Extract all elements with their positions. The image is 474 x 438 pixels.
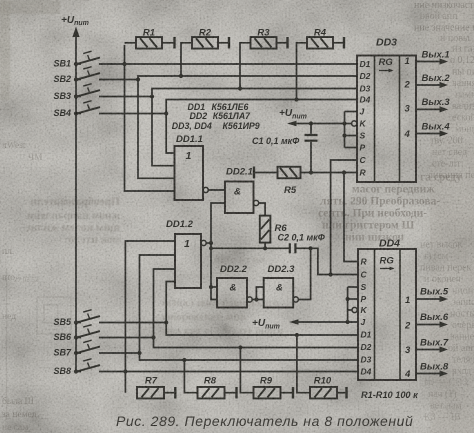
junction SB7 jog xyxy=(137,351,141,355)
resistor R2 xyxy=(192,37,218,49)
junction SB4 jog xyxy=(164,111,168,115)
DD2.3 output bubble xyxy=(293,297,298,302)
resistor R7 xyxy=(137,387,164,399)
mirrored ghost text left xyxy=(25,196,120,246)
wire R6 to C2 node xyxy=(264,243,266,249)
resistor R5 xyxy=(255,172,278,174)
wire D1 bottom row to DD4.D1 xyxy=(166,323,358,336)
wire R7 column to DD1.2 input1 xyxy=(125,241,175,393)
switch SB7 xyxy=(74,351,78,355)
tick R5 left xyxy=(253,167,255,179)
power arrow bottom xyxy=(289,319,299,325)
wire node to DD2.1 input2 xyxy=(211,203,225,243)
wire output Vyh3 xyxy=(416,108,441,110)
wire node down to DD2.2 inputs xyxy=(211,243,217,300)
ghost figure bleed lower-left xyxy=(7,268,72,420)
DD4 pin labels xyxy=(361,257,372,377)
faded book text right column xyxy=(414,0,474,423)
DD1.1 output bubble xyxy=(203,187,208,192)
DD2.1 output bubble xyxy=(254,200,259,205)
wire output Vyh2 xyxy=(416,84,441,86)
junction DD2.3 input tie xyxy=(254,297,258,301)
DD1.2 output bubble xyxy=(201,240,206,245)
junction C1 bottom xyxy=(309,170,313,174)
switch SB6 xyxy=(74,335,78,339)
wire D4 row jog to DD3.D4 xyxy=(166,100,357,114)
junction SB1/R1 xyxy=(122,62,126,66)
resistor R10 xyxy=(297,335,310,393)
capacitor C1 xyxy=(310,124,312,134)
switch SB2 xyxy=(74,77,78,81)
wire SB7 column to DD1.2 input2 xyxy=(140,255,176,353)
faded text lower left xyxy=(2,141,43,433)
wire output Vyh6 xyxy=(416,324,441,326)
IC DD4 box xyxy=(358,249,416,380)
wire DD2.3 input1 jog xyxy=(256,287,263,300)
junction R10/D1 xyxy=(295,333,299,337)
DD3 output numbers xyxy=(404,56,411,140)
DD4 K bubble xyxy=(352,307,357,312)
capacitor C2 xyxy=(289,243,291,253)
resistor R8 xyxy=(184,360,197,393)
wire C2 row xyxy=(211,247,289,249)
wire DD2.3 out up to C2 xyxy=(298,248,310,299)
wire R5 to DD3.R xyxy=(301,172,358,174)
wire SB2 column to DD1.1 input3 xyxy=(138,80,175,179)
wire D2 bottom row to DD4.D2 xyxy=(154,338,359,348)
wire output Vyh4 xyxy=(416,133,441,135)
wire SB4 row xyxy=(99,113,166,115)
wire +Upit to DD4.J xyxy=(298,321,358,323)
junction R line to DD4 xyxy=(342,170,346,174)
junction R6/C2 xyxy=(263,246,267,250)
wire +Upit to DD3.K xyxy=(296,123,352,125)
DD4 RG arrow xyxy=(380,268,391,270)
resistor R4 xyxy=(307,37,333,49)
switch SB5 xyxy=(74,320,78,324)
wire SB4 column to DD1.1 input1 xyxy=(166,114,174,154)
wire DD2.1 out to R6 xyxy=(259,203,265,216)
wire SB3 column to DD1.1 input2 xyxy=(152,97,175,166)
power arrow +Upit xyxy=(72,27,79,38)
wire DD1.2 out node xyxy=(206,242,211,244)
switch SB8 xyxy=(74,369,78,373)
wire R1 column to DD1.1 input4 xyxy=(125,45,175,191)
faded bleed lines under gates xyxy=(162,254,283,337)
junction R2/D2 xyxy=(179,74,183,78)
wire SB3 row xyxy=(99,96,152,98)
wire SB7 row xyxy=(99,352,140,354)
power arrow mid xyxy=(287,121,297,127)
wire DD1.1 out to DD2.1 input1 xyxy=(208,189,225,191)
wire SB5 row xyxy=(99,322,166,324)
wire SB2 row xyxy=(99,79,138,81)
junction C2/DD2.3 out xyxy=(309,246,313,250)
gate DD2.3 (NAND) xyxy=(264,278,294,308)
junction bracket K xyxy=(342,121,346,125)
wire D3 bottom row to DD4.D3 xyxy=(140,353,359,360)
junction bracket J bottom xyxy=(346,320,350,324)
wire D1 row SB1 to DD3.D1 xyxy=(99,63,357,65)
parts list DD1 DD2 DD3 DD4 types xyxy=(172,102,260,131)
switch SB3 xyxy=(74,94,78,98)
DD4 SPK bracket xyxy=(347,287,349,322)
gate DD2.1 (NAND) xyxy=(225,182,254,214)
junction SB2 jog xyxy=(136,77,140,81)
wire SB6 column to DD1.2 input3 xyxy=(154,269,176,338)
wire DD3.C down xyxy=(331,160,357,275)
DD3 K bubble xyxy=(352,121,357,126)
wire output Vyh8 xyxy=(416,373,441,375)
junction R3/D3 xyxy=(238,86,242,90)
wire D2 row jog to DD3.D2 xyxy=(138,76,357,80)
DD3 RG arrow xyxy=(379,70,390,72)
junction SB3 jog xyxy=(150,94,154,98)
resistor R6 xyxy=(260,216,271,243)
junction C line xyxy=(329,272,333,276)
wire D3 row jog to DD3.D3 xyxy=(152,89,357,97)
wire output Vyh1 xyxy=(416,61,441,63)
switch SB4 xyxy=(74,111,78,115)
junction R7/D4 xyxy=(123,369,127,373)
wire DD2.2 out to DD2.3 xyxy=(252,299,264,301)
resistor R9 xyxy=(240,348,253,393)
switch SB1 xyxy=(74,62,78,66)
junction C2 left tee xyxy=(209,246,213,250)
junction R8/D3 xyxy=(182,358,186,362)
gate DD2.2 (NAND) xyxy=(217,278,247,308)
junction R4/D4 xyxy=(294,97,298,101)
faded book text middle band xyxy=(318,172,462,244)
DD3 JSP bracket xyxy=(344,112,346,148)
junction C1 top xyxy=(309,121,313,125)
gate DD1.1 (4-input NOR) xyxy=(175,146,204,200)
DD3 pin labels xyxy=(360,59,371,178)
junction R9/D2 xyxy=(238,345,242,349)
gate DD1.2 (4-input NOR) xyxy=(175,234,201,288)
wire C2 node to DD4.C xyxy=(311,248,358,274)
junction SB5 jog xyxy=(164,320,168,324)
power rail +Upit xyxy=(75,31,77,372)
junction bracket P bottom xyxy=(346,297,350,301)
junction DD2.2 input1 xyxy=(209,285,213,289)
wire SB6 row xyxy=(99,337,154,339)
wire output Vyh7 xyxy=(416,349,441,351)
wire SB5 column to DD1.2 input4 xyxy=(166,282,175,323)
resistor R1 xyxy=(136,37,162,49)
IC DD3 box xyxy=(357,56,416,183)
resistor R3 xyxy=(251,37,277,49)
wire output Vyh5 xyxy=(416,298,441,300)
junction bracket S xyxy=(342,133,346,137)
junction SB6 jog xyxy=(151,335,155,339)
DD2.2 output bubble xyxy=(247,297,252,302)
DD4 output numbers xyxy=(404,295,411,380)
wire R line to DD4.R xyxy=(344,173,358,262)
junction DD1.2 out xyxy=(209,241,213,245)
wire SB8/D4 bottom row to DD4.D4 xyxy=(99,371,358,373)
